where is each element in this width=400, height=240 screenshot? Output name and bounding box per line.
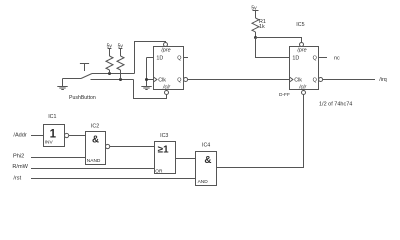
IC1 output bubble: [65, 133, 69, 137]
wire /Addr to IC1: [31, 135, 44, 137]
svg-text:IC1: IC1: [48, 114, 56, 120]
svg-text:OR: OR: [155, 169, 163, 175]
resistor R3 (right pull-up): [117, 56, 124, 80]
wire /rst to IC4: [31, 178, 196, 180]
svg-text:Q: Q: [177, 55, 181, 61]
svg-text:Q: Q: [313, 55, 317, 61]
IC5 Q stub to nc: [319, 57, 328, 59]
svg-text:IC4: IC4: [202, 143, 210, 149]
junction dot (R2 to upper rail): [108, 72, 111, 75]
D flip-flop FF1 box: [154, 47, 184, 90]
wire IC2 to IC3: [110, 146, 155, 148]
svg-text:&: &: [92, 135, 99, 146]
inverter IC1 box: [44, 125, 65, 147]
wire Phi2 to IC2: [31, 157, 86, 159]
wire lower throw rail: [91, 79, 134, 81]
AND gate IC4 box: [196, 152, 217, 186]
svg-text:/pre: /pre: [296, 47, 306, 53]
OR gate IC3 box: [155, 142, 176, 174]
svg-text:1: 1: [50, 129, 57, 141]
svg-text:nc: nc: [334, 55, 340, 61]
svg-text:D-FF: D-FF: [279, 92, 290, 98]
FF1 /pre bubble: [164, 43, 168, 47]
svg-text:AND: AND: [198, 179, 209, 185]
wire upper throw rail: [92, 73, 135, 75]
svg-text:Clk: Clk: [294, 77, 302, 83]
svg-text:PushButton: PushButton: [69, 95, 96, 101]
wire R1 node to IC5 /pre: [256, 38, 302, 43]
svg-text:R/mW: R/mW: [12, 164, 28, 170]
svg-text:/irq: /irq: [379, 77, 387, 83]
IC5 /pre bubble: [300, 43, 304, 47]
junction dot Clk/gnd: [145, 78, 148, 81]
ground GND1 (under pushbutton): [57, 79, 67, 90]
wire R/mW to IC3: [31, 168, 155, 170]
svg-text:IC5: IC5: [296, 22, 304, 28]
wire IC3 to IC4: [176, 158, 196, 160]
wire R1 node to IC5 1D: [256, 38, 290, 58]
wire 1D/Clk to ground: [146, 58, 148, 87]
wire IC5 /clr down to IC4 output: [217, 95, 304, 168]
svg-text:1D: 1D: [292, 55, 299, 61]
svg-text:/pre: /pre: [160, 47, 170, 53]
FF1 Q stub (nc): [184, 57, 189, 59]
svg-text:&: &: [204, 155, 211, 166]
junction dot (R3 to lower rail): [119, 78, 122, 81]
FF1 1D pin wire: [147, 57, 154, 59]
svg-text:NAND: NAND: [87, 158, 101, 164]
D flip-flop IC5 box: [290, 47, 319, 90]
wire IC1 to IC2: [69, 135, 86, 137]
svg-text:IC2: IC2: [91, 123, 99, 129]
svg-text:INV: INV: [45, 140, 54, 146]
power 5v (left): [107, 43, 113, 56]
svg-text:Clk: Clk: [158, 77, 166, 83]
junction dot R1 node: [254, 36, 257, 39]
power 5v (R1 top): [251, 5, 258, 18]
FF1 /clr bubble: [165, 90, 169, 95]
NAND gate IC2 box: [86, 132, 106, 165]
svg-text:/clr: /clr: [298, 84, 306, 90]
wire upper rail to /pre of FF1: [135, 42, 166, 74]
svg-text:Phi2: Phi2: [13, 154, 24, 160]
svg-text:≥1: ≥1: [158, 144, 169, 155]
FF1 /Q bubble: [184, 78, 188, 82]
IC5 clock triangle: [290, 77, 293, 82]
FF1 Clk pin wire: [147, 79, 154, 81]
svg-text:Q: Q: [313, 77, 317, 83]
wire FF1 /Q to IC5 Clk: [188, 79, 290, 81]
pushbutton S1: [63, 64, 93, 79]
power 5v (right): [118, 43, 124, 56]
svg-text:1/2 of 74hc74: 1/2 of 74hc74: [319, 101, 352, 107]
IC5 /Q bubble: [319, 78, 323, 82]
svg-text:Q: Q: [177, 77, 181, 83]
wire lower rail to /clr of FF1: [134, 80, 167, 99]
IC5 /clr bubble: [302, 90, 306, 95]
svg-text:/rst: /rst: [13, 176, 21, 182]
resistor R2 (left pull-up): [106, 56, 113, 74]
resistor R1: [252, 18, 259, 38]
svg-text:1D: 1D: [156, 55, 163, 61]
ground GND2 (FF1 1D/Clk): [141, 87, 151, 90]
svg-text:/Addr: /Addr: [13, 133, 27, 139]
svg-text:IC3: IC3: [160, 133, 168, 139]
wire IC5 /Q to /irq: [323, 79, 375, 81]
IC2 output bubble: [106, 144, 110, 148]
svg-text:1k: 1k: [259, 24, 265, 30]
FF1 clock triangle: [154, 77, 157, 82]
